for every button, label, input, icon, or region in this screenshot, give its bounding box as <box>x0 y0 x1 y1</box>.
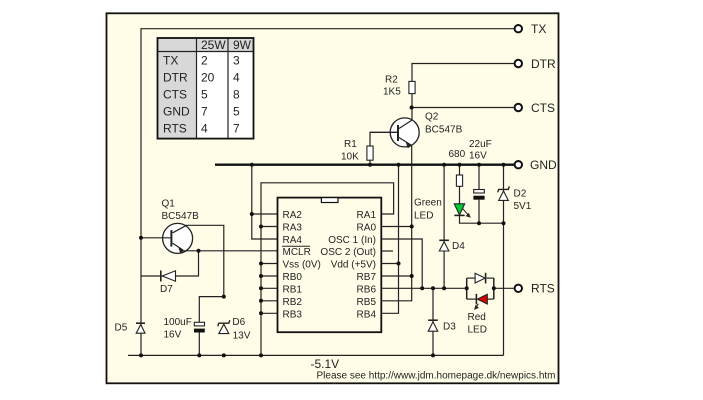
wire DTR to R2 <box>412 64 515 82</box>
svg-text:D6: D6 <box>232 317 245 328</box>
svg-text:BC547B: BC547B <box>162 211 200 222</box>
wire OSC2 stub <box>381 250 393 252</box>
wire OSC1 to RB6 row <box>381 239 422 288</box>
svg-text:Vss (0V): Vss (0V) <box>283 260 321 271</box>
wire Q2 emitter down to RA0/RB7/RB5 <box>381 146 411 301</box>
svg-text:Q1: Q1 <box>162 199 176 210</box>
svg-text:RB1: RB1 <box>283 284 303 295</box>
svg-text:GND: GND <box>530 158 557 172</box>
wire RA0 stub <box>381 226 411 228</box>
junction D7 / MCLR <box>197 249 201 253</box>
wire GND bus <box>215 163 515 165</box>
wire RA1 loop to line B <box>261 183 394 356</box>
junction LED combo left <box>465 286 469 290</box>
junction 22uF / connector <box>477 221 481 225</box>
wire RB6 row to RTS <box>381 287 466 289</box>
diode D3 branch <box>428 288 456 355</box>
junction Vdd <box>397 262 401 266</box>
svg-text:RB4: RB4 <box>357 309 377 320</box>
svg-text:D2: D2 <box>514 189 527 200</box>
svg-text:16V: 16V <box>469 151 487 162</box>
svg-text:7: 7 <box>201 105 208 119</box>
zener D2 <box>498 186 532 212</box>
capacitor C 100uF <box>164 297 224 356</box>
junction on GND bus at 680 <box>458 163 462 167</box>
junction CTS / R2 / Q2 collector <box>410 106 414 110</box>
svg-text:Red: Red <box>468 312 486 323</box>
terminal RTS <box>515 282 555 296</box>
wire Vss stub <box>261 263 278 265</box>
wire RB1 stub <box>261 287 278 289</box>
svg-text:4: 4 <box>201 122 208 136</box>
wire right rail (GND bus to bottom rail, D2 branch) <box>503 165 505 356</box>
svg-text:2: 2 <box>201 54 208 68</box>
diode/red LED parallel combo <box>467 273 494 336</box>
svg-text:100uF: 100uF <box>164 317 192 328</box>
svg-text:5: 5 <box>233 105 240 119</box>
wire RB7 stub <box>381 275 411 277</box>
wire Q1 collector to D6 branch <box>186 225 224 296</box>
resistor R2 <box>383 75 415 108</box>
svg-text:RA2: RA2 <box>283 210 303 221</box>
pin-table box <box>158 38 254 139</box>
junction LED combo right <box>492 286 496 290</box>
svg-text:Green: Green <box>414 198 442 209</box>
IC U1 PIC <box>278 198 382 333</box>
wire GND line down to Vdd and RB4 <box>381 165 398 314</box>
terminal GND <box>515 158 557 172</box>
svg-text:22uF: 22uF <box>469 139 492 150</box>
resistor R1 <box>341 132 397 164</box>
svg-text:D7: D7 <box>160 284 173 295</box>
junction left rail / bottom rail <box>139 353 143 357</box>
LED red <box>477 294 487 304</box>
junction OSC1 line on RTS row <box>420 286 424 290</box>
svg-text:BC547B: BC547B <box>425 125 463 136</box>
wire RB2 stub <box>261 300 278 302</box>
junction connector / D2 line <box>502 221 506 225</box>
svg-text:Please see http://www.jdm.home: Please see http://www.jdm.homepage.dk/ne… <box>316 371 555 382</box>
junction on GND bus at 22uF <box>477 163 481 167</box>
resistor 680 + green LED branch <box>449 149 466 204</box>
junction on GND bus at D4 <box>442 163 446 167</box>
LED green <box>414 198 504 224</box>
svg-text:7: 7 <box>233 122 240 136</box>
wire TX top line and left edge <box>141 29 515 356</box>
svg-text:DTR: DTR <box>163 71 188 85</box>
junction D6 on bottom rail <box>222 353 226 357</box>
junction RA0 <box>410 225 414 229</box>
junction D3 on bottom rail <box>431 353 435 357</box>
junction RA3 <box>259 225 263 229</box>
svg-text:TX: TX <box>163 54 178 68</box>
svg-text:GND: GND <box>163 105 190 119</box>
diode D7 <box>160 271 176 296</box>
svg-text:1K5: 1K5 <box>383 87 401 98</box>
svg-text:RB2: RB2 <box>283 297 303 308</box>
svg-text:680: 680 <box>449 149 466 160</box>
svg-text:R1: R1 <box>344 139 357 150</box>
svg-text:-5.1V: -5.1V <box>311 357 340 371</box>
svg-text:RA1: RA1 <box>357 210 377 221</box>
svg-text:RB5: RB5 <box>357 297 377 308</box>
wire Vdd stub <box>381 263 398 265</box>
svg-text:OSC 2 (Out): OSC 2 (Out) <box>320 247 376 258</box>
svg-text:RB6: RB6 <box>357 284 377 295</box>
svg-text:3: 3 <box>233 54 240 68</box>
junction on GND bus at R1 <box>368 163 372 167</box>
svg-text:D4: D4 <box>452 241 465 252</box>
svg-text:RB0: RB0 <box>283 272 303 283</box>
svg-text:5V1: 5V1 <box>514 201 532 212</box>
junction 100uF / Q1 collector <box>222 295 226 299</box>
wire D7 branch <box>141 251 199 276</box>
terminal TX <box>515 22 547 36</box>
svg-text:MCLR: MCLR <box>283 247 311 258</box>
svg-text:RTS: RTS <box>531 282 555 296</box>
junction on GND bus at Vdd line <box>397 163 401 167</box>
svg-text:20: 20 <box>201 71 215 85</box>
svg-text:D3: D3 <box>443 322 456 333</box>
junction RB1 <box>259 286 263 290</box>
svg-text:CTS: CTS <box>163 88 187 102</box>
svg-text:OSC 1 (In): OSC 1 (In) <box>328 235 376 246</box>
svg-text:RA3: RA3 <box>283 223 303 234</box>
wire MCLR from Q1 emitter <box>184 250 278 252</box>
svg-text:RTS: RTS <box>163 122 187 136</box>
terminal DTR <box>515 57 556 71</box>
junction Vss <box>259 262 263 266</box>
svg-text:5: 5 <box>201 88 208 102</box>
wire RA3 stub <box>261 226 278 228</box>
wire CTS <box>412 107 515 109</box>
junction RB2 <box>259 299 263 303</box>
diode D5 <box>115 323 146 334</box>
junction line B on bottom rail <box>259 353 263 357</box>
junction RA2 <box>250 212 254 216</box>
transistor Q2 <box>370 108 463 149</box>
svg-text:CTS: CTS <box>531 101 555 115</box>
diode D4 branch <box>439 165 465 289</box>
zener D6 <box>218 317 251 341</box>
capacitor 22uF <box>469 139 492 223</box>
junction RB7 <box>410 274 414 278</box>
svg-text:Vdd (+5V): Vdd (+5V) <box>331 260 376 271</box>
wire bottom -5.1V rail <box>128 354 504 356</box>
svg-text:4: 4 <box>233 71 240 85</box>
junction RB0 <box>259 274 263 278</box>
svg-text:D5: D5 <box>115 323 128 334</box>
svg-text:13V: 13V <box>233 330 251 341</box>
svg-text:LED: LED <box>414 211 433 222</box>
wire RB0 stub <box>261 275 278 277</box>
junction Q1 base on left rail <box>139 236 143 240</box>
svg-text:8: 8 <box>233 88 240 102</box>
svg-text:25W: 25W <box>201 38 226 52</box>
svg-text:TX: TX <box>531 22 546 36</box>
junction on GND bus at D2 <box>502 163 506 167</box>
junction D3 on RTS row <box>431 286 435 290</box>
wire RB3 stub <box>261 312 278 314</box>
svg-text:16V: 16V <box>164 330 182 341</box>
svg-text:DTR: DTR <box>531 57 556 71</box>
svg-text:9W: 9W <box>233 38 252 52</box>
svg-text:LED: LED <box>468 325 487 336</box>
svg-text:RA4: RA4 <box>283 235 303 246</box>
svg-text:RB3: RB3 <box>283 309 303 320</box>
svg-text:R2: R2 <box>385 75 398 86</box>
terminal CTS <box>515 101 555 115</box>
wire bus to RA2/RA4 (line A) <box>252 165 278 239</box>
junction D4 on RTS row <box>442 286 446 290</box>
junction 100uF on bottom rail <box>197 353 201 357</box>
transistor Q1 <box>141 199 199 254</box>
junction RB3 <box>259 311 263 315</box>
svg-text:Q2: Q2 <box>425 112 439 123</box>
svg-text:RA0: RA0 <box>357 223 377 234</box>
outer schematic frame <box>107 13 559 383</box>
svg-text:10K: 10K <box>341 152 359 163</box>
junction on GND bus at line A <box>250 163 254 167</box>
wire RA2 stub <box>252 213 278 215</box>
diode top of combo <box>475 273 485 283</box>
svg-text:RB7: RB7 <box>357 272 377 283</box>
